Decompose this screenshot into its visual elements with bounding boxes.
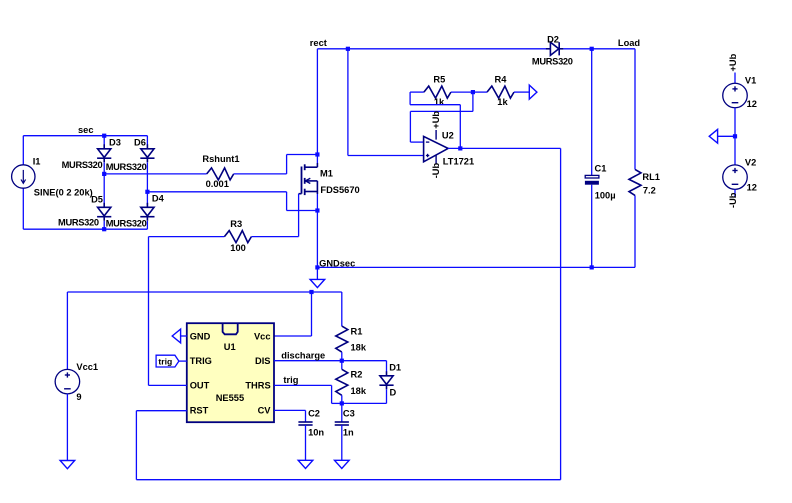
svg-text:0.001: 0.001 — [206, 179, 229, 189]
wire D6 column — [146, 136, 148, 145]
capacitor C1 100u (polarized) — [585, 175, 599, 178]
svg-text:12: 12 — [747, 99, 757, 109]
ground under C2 — [298, 460, 313, 468]
IC U1 NE555 — [187, 323, 274, 422]
svg-text:100: 100 — [230, 243, 246, 253]
wire GNDsec rail — [317, 266, 635, 268]
resistor Rshunt1 0.001 — [207, 168, 234, 180]
wire bottom rail — [136, 479, 560, 481]
wire down to NE555 Vcc pin — [311, 292, 313, 336]
port trig flag at U1 TRIG — [156, 355, 179, 367]
svg-text:trig: trig — [283, 375, 298, 385]
svg-text:D5: D5 — [91, 194, 103, 204]
svg-text:V2: V2 — [745, 158, 756, 168]
wire C1 column — [591, 49, 593, 176]
wire M1 drain up to rect row — [316, 49, 318, 163]
op-amp U2 LT1721 — [424, 136, 449, 161]
svg-text:18k: 18k — [351, 386, 367, 396]
wire output down to bottom rail — [560, 148, 562, 479]
node supply mid junction — [733, 134, 737, 138]
wire D4 junction row to M1 source — [147, 191, 286, 193]
svg-text:MURS320: MURS320 — [58, 217, 99, 227]
wire D4 column — [146, 192, 148, 205]
svg-text:Vcc: Vcc — [254, 331, 271, 341]
svg-text:TRIG: TRIG — [190, 356, 212, 366]
transistor M1 FDS5670 — [301, 167, 303, 194]
wire D2 to Load corner — [563, 48, 635, 50]
ground under Vcc1 — [60, 461, 75, 469]
node opamp output — [458, 146, 462, 150]
wire Vcc supply row — [67, 291, 341, 293]
svg-text:rect: rect — [310, 38, 327, 48]
svg-text:10n: 10n — [308, 428, 324, 438]
node R2 bottom junction — [340, 401, 344, 405]
wire R5 left to output (feedback) — [409, 92, 411, 105]
svg-text:-Ub: -Ub — [431, 162, 441, 178]
svg-text:D: D — [390, 388, 397, 398]
svg-text:R5: R5 — [433, 74, 445, 84]
svg-text:sec: sec — [78, 125, 94, 135]
svg-text:NE555: NE555 — [216, 393, 244, 403]
wire R3 row — [149, 236, 225, 238]
wire opamp output row — [448, 147, 560, 149]
svg-text:V1: V1 — [745, 75, 756, 85]
svg-text:1n: 1n — [343, 428, 354, 438]
svg-text:C3: C3 — [343, 409, 355, 419]
resistor RL1 7.2 — [629, 169, 641, 195]
svg-text:D2: D2 — [547, 34, 559, 44]
svg-text:DIS: DIS — [255, 356, 271, 366]
wire rect to opamp + input — [347, 49, 349, 156]
voltage source V1 12 — [723, 83, 748, 108]
svg-text:SINE(0 2 20k): SINE(0 2 20k) — [34, 187, 93, 197]
resistor R5 1k — [424, 86, 451, 98]
svg-text:U2: U2 — [442, 131, 454, 141]
resistor R4 1k — [487, 86, 514, 98]
wire DIS row (discharge) — [274, 360, 387, 362]
wire junction to V2 — [734, 136, 736, 165]
svg-text:9: 9 — [76, 392, 81, 402]
svg-text:1k: 1k — [497, 97, 508, 107]
node C1 top — [590, 47, 594, 51]
wire CV row — [274, 409, 306, 411]
node GNDsec junction — [315, 265, 319, 269]
diode D3 MURS320 — [103, 144, 105, 149]
wire Rshunt1 to M1 drain — [234, 173, 287, 175]
node M1 source — [315, 208, 319, 212]
wire V1 top stub — [734, 73, 736, 84]
diode D1 D — [386, 361, 388, 372]
wire D5 column — [103, 174, 105, 205]
svg-text:THRS: THRS — [245, 381, 270, 391]
wire bridge bottom rail — [23, 228, 147, 230]
svg-text:D3: D3 — [109, 137, 121, 147]
wire RST pin — [136, 410, 186, 412]
svg-text:100µ: 100µ — [595, 190, 616, 200]
node bridge mid (junction D3/D5) — [102, 172, 106, 176]
svg-text:GND: GND — [190, 331, 211, 341]
wire bridge mid to Rshunt1 — [104, 173, 207, 175]
diode D2 MURS320 — [546, 48, 551, 50]
wire I1 left column — [22, 136, 24, 165]
node C1 bottom — [590, 265, 594, 269]
svg-text:MURS320: MURS320 — [532, 56, 573, 66]
svg-text:D4: D4 — [152, 193, 165, 203]
svg-text:12: 12 — [747, 183, 757, 193]
svg-text:1k: 1k — [434, 97, 445, 107]
wire R5 left lead — [410, 91, 424, 93]
wire sec top rail — [23, 135, 147, 137]
wire THRS row (trig) — [274, 384, 332, 386]
voltage source V2 12 — [723, 165, 748, 190]
svg-text:R4: R4 — [495, 74, 508, 84]
svg-text:discharge: discharge — [281, 350, 325, 360]
svg-text:trig: trig — [158, 356, 172, 366]
svg-text:I1: I1 — [33, 157, 41, 167]
svg-text:RL1: RL1 — [642, 172, 660, 182]
wire OUT column up to R3 — [148, 237, 150, 386]
node D6/D4 junction — [145, 190, 149, 194]
svg-text:+Ub: +Ub — [728, 53, 738, 71]
resistor R2 18k — [341, 361, 343, 370]
wire OUT pin — [149, 384, 187, 386]
svg-text:MURS320: MURS320 — [106, 162, 147, 172]
wire Vcc1 to ground — [66, 394, 68, 461]
diode D6 MURS320 — [146, 144, 148, 149]
wire junction down to inverting input — [472, 92, 474, 111]
svg-text:18k: 18k — [351, 342, 367, 352]
wire V2 bottom stub — [734, 189, 736, 196]
ground under C3 — [335, 460, 350, 468]
node R5/R4 junction — [471, 90, 475, 94]
diode D4 MURS320 — [146, 203, 148, 208]
node discharge junction — [340, 359, 344, 363]
svg-text:LT1721: LT1721 — [443, 157, 474, 167]
wire M1 source down to GNDsec — [316, 194, 318, 267]
port arrow at supply mid — [709, 129, 717, 143]
svg-text:MURS320: MURS320 — [106, 218, 147, 228]
svg-text:Load: Load — [618, 38, 641, 48]
svg-text:-Ub: -Ub — [728, 192, 738, 208]
capacitor C2 10n — [298, 421, 312, 423]
svg-text:OUT: OUT — [190, 381, 210, 391]
wire R3 to M1 gate — [251, 236, 298, 238]
svg-text:C2: C2 — [308, 409, 320, 419]
svg-text:R1: R1 — [351, 327, 363, 337]
node M1 drain — [315, 152, 319, 156]
capacitor C3 1n — [341, 403, 343, 422]
svg-text:D6: D6 — [134, 137, 146, 147]
svg-text:Vcc1: Vcc1 — [76, 362, 98, 372]
svg-text:U1: U1 — [224, 342, 236, 352]
diode D5 MURS320 — [103, 203, 105, 208]
wire GNDsec stub down — [316, 267, 318, 279]
voltage source Vcc1 9 — [55, 369, 80, 394]
svg-text:D1: D1 — [389, 362, 401, 372]
svg-text:R2: R2 — [351, 370, 363, 380]
wire rect row — [317, 48, 546, 50]
wire R1 column top — [341, 292, 343, 326]
svg-text:M1: M1 — [320, 169, 333, 179]
current source I1 — [12, 165, 35, 188]
wire R4 leads — [473, 91, 487, 93]
node Vcc pin junction — [309, 290, 313, 294]
port GND arrow at U1 — [172, 329, 180, 343]
resistor R3 100 — [224, 231, 251, 243]
svg-text:+Ub: +Ub — [431, 111, 441, 129]
svg-text:RST: RST — [190, 405, 209, 415]
svg-text:C1: C1 — [595, 163, 607, 173]
wire R5 right to junction — [451, 91, 473, 93]
svg-text:7.2: 7.2 — [643, 185, 656, 195]
ground GNDsec — [310, 279, 325, 287]
port output arrow after R4 — [529, 85, 537, 99]
wire D3 column — [103, 136, 105, 145]
svg-text:CV: CV — [258, 405, 272, 415]
svg-text:Rshunt1: Rshunt1 — [202, 154, 239, 164]
svg-text:MURS320: MURS320 — [62, 160, 103, 170]
wire Vcc1 column — [66, 292, 68, 369]
svg-text:FDS5670: FDS5670 — [320, 185, 359, 195]
resistor R1 18k — [336, 326, 348, 352]
wire RL1 column — [634, 49, 636, 170]
wire V1 to junction — [734, 108, 736, 137]
svg-text:R3: R3 — [230, 219, 242, 229]
